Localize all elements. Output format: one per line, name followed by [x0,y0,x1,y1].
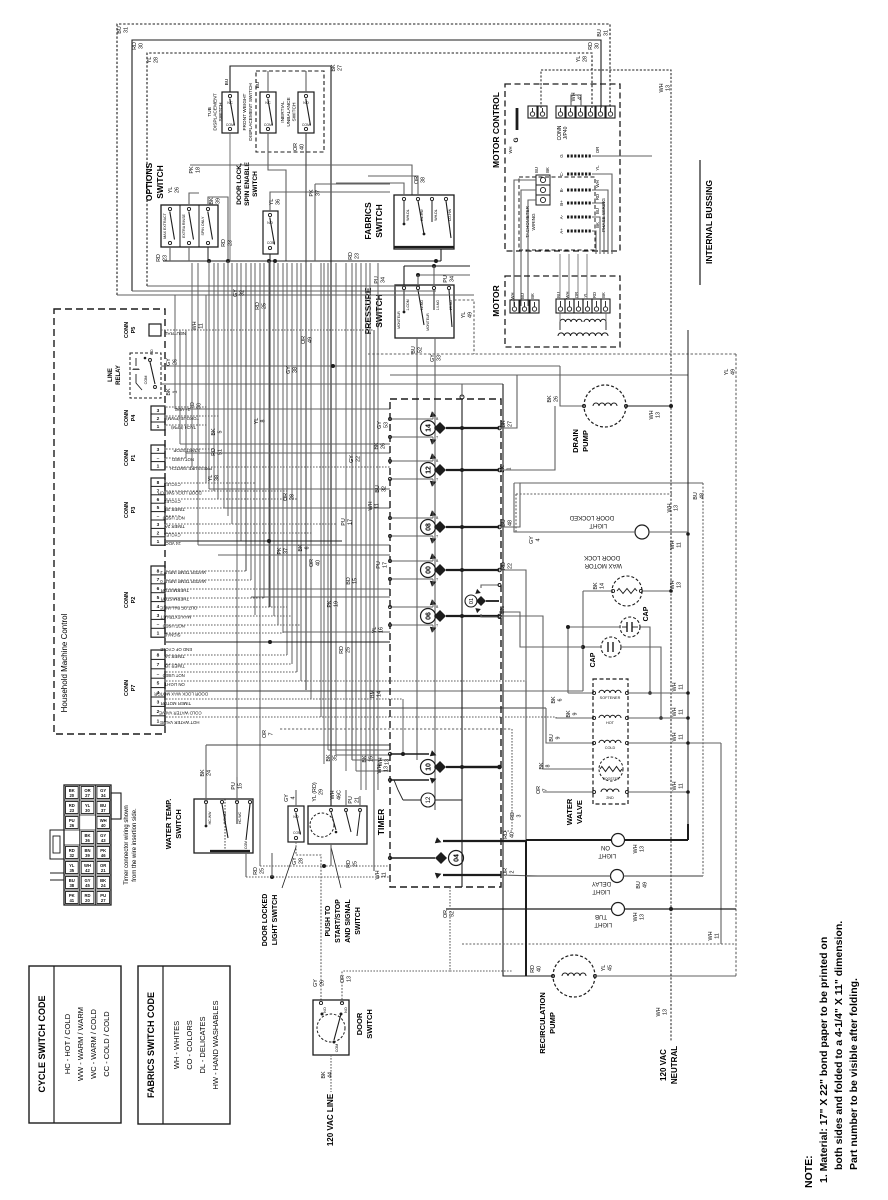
svg-text:4: 4 [157,604,160,610]
svg-text:25: 25 [352,861,358,867]
svg-text:DOOR LOCKED: DOOR LOCKED [569,514,614,520]
wire [269,261,271,607]
svg-text:GY: GY [313,979,319,987]
svg-text:6: 6 [157,497,160,503]
wire trio horizontal runs [117,294,474,296]
svg-text:23-NO: 23-NO [449,300,453,311]
wire PK 37 vertical [314,184,316,261]
svg-text:BM: BM [370,689,376,698]
svg-text:TIMER MOTOR: TIMER MOTOR [161,701,191,706]
svg-text:LIGHT: LIGHT [589,522,607,528]
svg-text:BU: BU [117,26,123,34]
svg-text:11: 11 [678,783,684,789]
wire [365,263,367,790]
wire water temp feed row [206,744,390,746]
wire drain pump right to WH13 bus [626,405,671,407]
svg-text:11: 11 [714,933,720,939]
svg-text:P4: P4 [131,414,137,422]
junction dot 24VDC [267,539,271,543]
svg-text:MONITEUR: MONITEUR [397,311,401,329]
svg-text:HOT: HOT [606,721,615,725]
svg-text:3: 3 [157,408,160,414]
svg-text:15: 15 [368,756,374,762]
svg-text:WH: WH [633,912,639,921]
wire recirc right [595,975,736,977]
svg-text:HW - HAND WASHABLES: HW - HAND WASHABLES [211,1001,220,1090]
wire DELAY light row [526,875,611,877]
svg-text:NOT USED: NOT USED [163,623,185,628]
svg-text:GY: GY [286,366,292,374]
wire softener valve feed [567,627,569,693]
drain pump circle [584,385,626,427]
svg-text:VALVE: VALVE [575,800,584,824]
svg-text:ON: ON [601,844,610,850]
svg-text:SWITCH: SWITCH [292,102,298,121]
svg-text:25: 25 [259,868,265,874]
svg-text:COM: COM [144,376,148,385]
svg-text:13: 13 [346,976,352,982]
svg-text:21: 21 [101,868,106,873]
svg-text:RD: RD [501,562,507,570]
svg-text:40: 40 [101,823,106,828]
wire [217,263,219,499]
wire tub displacement bottom [229,133,231,261]
motor connector 2 [556,299,565,313]
wire [323,263,325,764]
wire [283,631,390,633]
triac station 06 circled number [421,609,436,624]
wire [251,596,390,598]
svg-text:BK: BK [545,167,550,173]
svg-text:WIRING: WIRING [531,213,536,231]
wire [356,770,390,772]
svg-text:26: 26 [319,980,325,986]
svg-text:RD: RD [530,965,536,973]
svg-text:3: 3 [516,815,522,818]
wire [166,588,260,590]
svg-text:OPTIONS: OPTIONS [144,163,154,202]
svg-text:WH - WHITES: WH - WHITES [172,1021,181,1069]
svg-text:YL: YL [147,57,153,64]
svg-text:13: 13 [662,1009,668,1015]
svg-text:DOOR LOCK SWITCH: DOOR LOCK SWITCH [158,490,202,495]
wire [166,523,336,525]
svg-text:WH: WH [508,147,513,154]
svg-text:WH: WH [672,707,678,716]
svg-text:120 VAC LINE: 120 VAC LINE [326,1093,335,1146]
wire [166,716,556,718]
svg-text:YL: YL [576,56,582,63]
svg-text:DOOR LOCK: DOOR LOCK [584,554,620,560]
wire RD down right of relay box [161,383,503,385]
leader line push to start label [331,847,341,888]
svg-text:49: 49 [730,369,736,375]
svg-text:NO: NO [323,1007,327,1013]
svg-text:HC-WW: HC-WW [208,811,212,825]
svg-text:RD: RD [510,812,516,820]
svg-text:COM: COM [244,841,248,849]
svg-text:9: 9 [572,713,578,716]
conn P2 cells [151,566,165,637]
svg-text:WH: WH [649,410,655,419]
TUB light circle [612,903,625,916]
svg-text:RD: RD [255,302,261,310]
svg-text:41: 41 [69,898,74,903]
triac bank dashed box [390,399,501,887]
svg-text:FRONT WEIGHT: FRONT WEIGHT [242,93,248,130]
svg-text:BK: BK [601,292,606,298]
svg-text:30: 30 [85,808,90,813]
wire options switch top stubs [189,193,199,205]
triac station 08 input wires [390,517,433,519]
svg-text:12-NO: 12-NO [420,300,424,311]
wire [351,286,353,760]
triac station 00 input wires [390,560,433,562]
svg-text:48: 48 [699,493,705,499]
wire [175,408,390,410]
svg-text:OR: OR [283,493,289,501]
svg-text:OR: OR [595,147,600,154]
svg-text:CONN: CONN [124,450,130,466]
svg-text:WATER TEMP.: WATER TEMP. [164,799,173,850]
svg-text:YL: YL [208,475,214,482]
svg-text:7: 7 [268,733,274,736]
svg-text:RECIRCULATION: RECIRCULATION [538,992,547,1054]
svg-text:12: 12 [426,466,433,474]
svg-text:BK: BK [500,465,506,473]
svg-text:MOTOR: MOTOR [491,285,501,316]
svg-text:PUMP: PUMP [581,430,590,452]
wire [286,263,288,655]
wire push switch bottom [330,844,332,866]
svg-text:START/STOP: START/STOP [335,899,342,943]
svg-text:CONN: CONN [124,322,130,338]
line relay dashed box [130,353,161,398]
push switch contacts [330,809,333,812]
wire HOT WATER VALVE feed [556,717,594,718]
svg-text:RD: RD [346,860,352,868]
svg-text:BK: BK [595,222,600,228]
door locked light circle [635,525,649,539]
svg-text:BK: BK [547,395,553,403]
svg-text:34: 34 [449,276,455,282]
svg-text:40: 40 [315,560,321,566]
svg-text:PU: PU [443,275,449,283]
wire left thick feeder for lights [525,840,527,976]
svg-text:4: 4 [535,539,541,542]
svg-text:5: 5 [157,681,160,687]
svg-text:27: 27 [85,793,90,798]
wire [166,515,180,517]
svg-text:CONN: CONN [124,410,130,426]
wire cap upper left [568,626,620,628]
svg-text:31: 31 [603,30,609,36]
svg-text:NOT USED: NOT USED [163,516,185,521]
door lock wax motor circle [612,576,642,606]
water valve dashed box [593,679,628,804]
svg-text:RD: RD [503,831,509,839]
svg-text:–: – [157,623,160,628]
svg-text:C-: C- [559,171,564,176]
svg-text:SWITCH: SWITCH [355,907,362,935]
wire [282,263,284,633]
svg-text:20: 20 [69,793,74,798]
wire BN from station 01 [499,612,583,647]
wire YL 28 run [147,53,592,286]
svg-text:CONN: CONN [124,680,130,696]
svg-text:BU: BU [534,167,539,173]
svg-text:7: 7 [157,662,160,668]
svg-text:WH: WH [670,540,676,549]
wire [166,507,361,509]
svg-text:37: 37 [283,548,289,554]
wire [209,488,390,490]
svg-text:49: 49 [307,337,313,343]
svg-text:27: 27 [507,421,513,427]
label INTERNAL BUSSING [699,160,701,285]
fabrics switch blades [403,201,405,224]
wire spin enable top [270,192,390,211]
svg-text:WH: WH [708,931,714,940]
svg-text:32: 32 [69,853,74,858]
DELAY light circle [611,870,624,883]
svg-text:–: – [157,672,160,677]
svg-text:PHASE WIRING: PHASE WIRING [601,198,606,232]
wire [328,749,390,751]
wire push switch top stubs [345,790,347,806]
svg-text:13: 13 [676,582,682,588]
svg-text:BU: BU [595,208,600,214]
svg-text:OR: OR [301,336,307,344]
svg-text:COM: COM [293,831,301,835]
wire [377,263,379,790]
triac station 06 upper triangle [430,599,438,607]
svg-text:BK: BK [539,762,545,770]
triac station 00 lower triangle [430,579,438,587]
svg-text:6: 6 [157,586,160,592]
svg-text:28: 28 [582,56,588,62]
wire BK to drain pump [560,366,584,406]
svg-text:BK: BK [374,442,380,450]
door locked light switch box [288,806,304,842]
svg-text:BU: BU [520,293,525,299]
triac station 06 lower triangle [430,625,438,633]
svg-text:Household Machine Control: Household Machine Control [60,613,69,712]
wire [179,330,181,444]
svg-text:34: 34 [101,793,106,798]
svg-text:32: 32 [381,486,387,492]
wire water temp bottom to dotted bus [245,853,247,877]
wire [166,579,251,581]
svg-text:8: 8 [157,653,160,659]
water valve coil HOT [599,715,621,718]
svg-text:P5: P5 [131,327,137,334]
svg-text:CO-HW: CO-HW [448,208,452,221]
svg-text:GY: GY [529,536,535,544]
svg-text:PU: PU [341,518,347,526]
triac station 00 upper triangle [430,553,438,561]
svg-text:CAP: CAP [590,652,597,667]
wire [263,263,265,598]
svg-text:11: 11 [678,734,684,740]
svg-text:11: 11 [198,323,204,329]
tachometer connector [536,175,550,185]
svg-text:32: 32 [239,290,245,296]
svg-text:06: 06 [426,612,433,620]
svg-text:SWITCH: SWITCH [155,165,165,199]
svg-text:RD: RD [221,239,227,247]
phase wiring bars [567,155,592,158]
svg-text:WH-DL: WH-DL [406,209,410,221]
junction dots on options bus [207,259,211,263]
relay wire GY 26 [161,365,560,367]
wire [231,263,233,524]
svg-text:LIGHT SWITCH: LIGHT SWITCH [272,895,279,946]
wire [227,261,229,516]
wire [224,507,390,509]
svg-text:45: 45 [607,965,613,971]
svg-text:DL - DELICATES: DL - DELICATES [198,1016,207,1073]
svg-text:20: 20 [85,898,90,903]
motor winding symbol [560,319,582,322]
svg-text:WH: WH [192,321,198,330]
svg-text:40: 40 [299,144,305,150]
svg-text:45: 45 [85,883,90,888]
svg-text:DOOR LOCK,: DOOR LOCK, [236,163,243,205]
wire TUB light row [446,908,612,910]
svg-text:18: 18 [195,167,201,173]
ground bar G [516,108,519,130]
svg-text:WH: WH [633,844,639,853]
wire [186,452,390,454]
svg-text:LIGHT: LIGHT [592,888,610,894]
svg-text:13: 13 [383,766,389,772]
svg-text:39: 39 [215,198,221,204]
svg-text:11: 11 [678,709,684,715]
wire door locked light right [649,531,688,533]
wire [305,133,307,690]
svg-text:TORQUE (PWM): TORQUE (PWM) [166,416,199,421]
svg-text:WH: WH [595,180,600,187]
svg-text:GY: GY [166,358,172,366]
wire [166,498,297,500]
svg-text:WH: WH [656,1007,662,1016]
svg-text:13: 13 [639,914,645,920]
svg-text:26: 26 [69,823,74,828]
svg-text:MAX EXTRACT: MAX EXTRACT [163,212,167,238]
svg-text:28: 28 [153,57,159,63]
svg-text:BU: BU [597,29,603,37]
svg-text:27: 27 [337,65,343,71]
svg-text:RELAY: RELAY [116,365,122,385]
triac station 12 upper triangle [430,453,438,461]
wire [166,406,208,408]
svg-text:P3: P3 [131,507,137,514]
svg-text:COM: COM [226,123,234,127]
triac station 12 diamond [434,464,446,476]
svg-text:6: 6 [304,547,310,550]
wire [205,295,207,483]
svg-text:OR: OR [414,176,420,184]
svg-text:BOOSTER: BOOSTER [603,777,620,781]
svg-text:YL: YL [254,418,260,425]
wire [245,263,247,571]
svg-text:COLD WATER VALVE: COLD WATER VALVE [159,710,202,715]
wire [259,263,261,866]
svg-text:WH: WH [330,790,336,799]
svg-text:52: 52 [449,911,455,917]
svg-text:43: 43 [101,838,106,843]
push to start switch box [308,806,367,844]
wire [345,263,347,771]
wire [166,466,390,468]
svg-text:CC - COLD / COLD: CC - COLD / COLD [102,1011,111,1077]
svg-text:RD: RD [592,292,597,298]
svg-text:01: 01 [469,598,475,604]
front weight displacement switch box [260,92,276,133]
svg-text:BN: BN [500,606,506,614]
wire [198,544,390,546]
svg-text:120 VAC: 120 VAC [659,1049,668,1081]
svg-text:SPIN ONLY: SPIN ONLY [201,216,205,236]
svg-text:NC: NC [227,101,233,105]
svg-text:FABRICS: FABRICS [363,202,373,240]
wire BK 27 from tub displacement switch to start switch [230,66,331,806]
wire OR 52 from timer to door switch [342,887,450,971]
svg-text:17: 17 [382,562,388,568]
wire to ON light feed [525,681,527,840]
wire fabrics top stubs [368,176,418,195]
wire [185,330,187,458]
svg-text:BK: BK [501,420,507,428]
svg-text:48: 48 [507,520,513,526]
wire door locked light left [514,483,635,532]
svg-text:SWITCH: SWITCH [174,809,183,839]
svg-text:39: 39 [85,853,90,858]
wire [360,263,362,790]
svg-text:38: 38 [292,367,298,373]
svg-text:3: 3 [157,700,160,706]
door switch box [313,1000,349,1055]
svg-text:BK: BK [551,696,557,704]
svg-text:RD: RD [211,448,217,456]
svg-text:J/P40: J/P40 [563,126,569,139]
wire [268,261,270,607]
wire [355,263,357,771]
svg-text:40: 40 [536,966,542,972]
svg-text:OR: OR [309,559,315,567]
svg-text:HOT WATER VALVE: HOT WATER VALVE [160,720,200,725]
svg-text:3: 3 [157,447,160,453]
svg-text:46C: 46C [336,790,342,800]
pressure switch blades [403,290,405,312]
svg-text:BU: BU [375,485,381,493]
svg-text:RD: RD [595,194,600,200]
inner dashed box tach and phase wiring [519,177,595,250]
wire BU 48 dotted parallel [516,493,672,495]
wire water temp top stubs [205,745,207,802]
svg-text:P2: P2 [131,597,137,604]
wire WH 13 top run to right bus [541,70,671,908]
inertial unbalance switch box [298,92,314,133]
svg-text:11: 11 [374,503,380,509]
svg-text:NEUTRAL: NEUTRAL [670,1046,679,1084]
svg-text:YL: YL [461,312,467,319]
triac station 00 output wire [446,569,499,571]
motor control connector block 1 [528,106,537,118]
svg-text:from the wire insertion side.: from the wire insertion side. [132,808,138,882]
wire door switch bottom [330,1055,332,1092]
